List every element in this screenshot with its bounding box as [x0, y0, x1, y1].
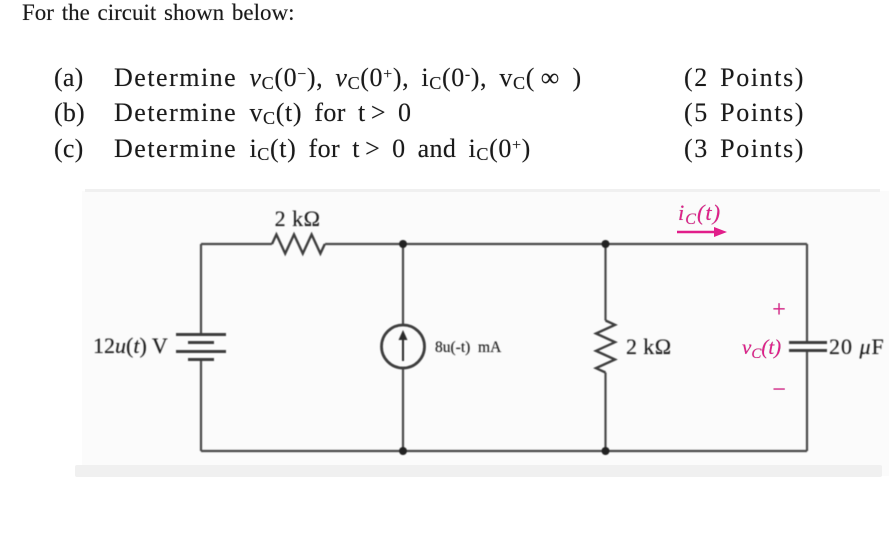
wire: bottom rail	[201, 450, 807, 452]
figure scan background	[82, 191, 889, 476]
voltage source V1 battery 12u(t) V	[176, 335, 226, 360]
arrow iC(t)	[677, 227, 727, 237]
svg-text:8u(-t) mA: 8u(-t) mA	[435, 339, 502, 356]
current source I1 8u(-t) mA	[382, 325, 425, 368]
svg-text:2 kΩ: 2 kΩ	[275, 206, 321, 231]
node D (bottom, resistor branch)	[602, 447, 610, 455]
node B (top, resistor branch)	[602, 240, 610, 248]
node A (top, current source)	[399, 240, 407, 248]
item (a)	[54, 63, 83, 93]
node C (bottom, current source)	[399, 447, 407, 455]
wire: middle resistor branch	[604, 244, 606, 451]
svg-text:−: −	[772, 377, 786, 403]
resistor R2 2 kOhm (middle, vertical)	[596, 321, 615, 373]
svg-text:+: +	[772, 297, 786, 323]
item (b)	[54, 98, 85, 128]
capacitor C1 20 uF	[789, 343, 827, 351]
wire: current source branch	[402, 244, 404, 451]
wire: right rail	[806, 244, 808, 451]
resistor R1 2 kOhm (top, horizontal)	[272, 235, 325, 254]
item (c)	[54, 134, 83, 164]
heading	[22, 0, 294, 26]
svg-text:2 kΩ: 2 kΩ	[626, 334, 671, 359]
svg-text:iC(t): iC(t)	[678, 200, 721, 228]
svg-text:vC(t): vC(t)	[742, 335, 781, 362]
svg-text:12u(t) V: 12u(t) V	[93, 333, 168, 358]
current source arrow	[399, 330, 408, 361]
wire: top rail	[201, 243, 807, 245]
svg-text:20 μF: 20 μF	[829, 334, 885, 359]
wire: left rail	[200, 244, 202, 451]
